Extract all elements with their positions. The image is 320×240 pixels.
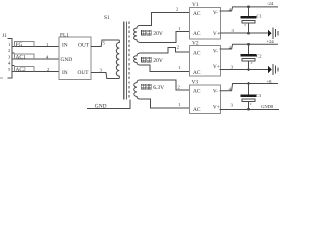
- svg-text:GND: GND: [61, 57, 73, 63]
- svg-text:2: 2: [178, 85, 181, 90]
- svg-text:3: 3: [231, 102, 234, 107]
- svg-text:5: 5: [103, 40, 106, 45]
- svg-text:1: 1: [178, 65, 181, 70]
- svg-text:IN: IN: [62, 42, 68, 48]
- svg-text:1: 1: [178, 26, 181, 31]
- svg-text:+24: +24: [267, 39, 275, 44]
- svg-text:3: 3: [100, 68, 103, 73]
- svg-text:V-: V-: [213, 89, 218, 95]
- svg-text:+: +: [250, 101, 253, 106]
- svg-text:20V: 20V: [153, 31, 163, 37]
- svg-text:GND: GND: [95, 103, 107, 109]
- svg-text:C3: C3: [256, 93, 262, 98]
- svg-text:3: 3: [231, 65, 234, 70]
- svg-text:C2: C2: [256, 54, 262, 59]
- svg-text:S1: S1: [104, 15, 110, 21]
- svg-text:GND8: GND8: [261, 104, 274, 109]
- svg-text:AC: AC: [193, 70, 201, 76]
- svg-text:FG: FG: [16, 42, 23, 48]
- svg-text:V+: V+: [213, 31, 220, 37]
- svg-text:-24: -24: [267, 1, 274, 6]
- svg-text:2: 2: [176, 6, 179, 11]
- svg-text:+: +: [250, 61, 253, 66]
- svg-text:3: 3: [232, 28, 235, 33]
- svg-text:AC1: AC1: [16, 55, 26, 61]
- svg-text:FL1: FL1: [60, 33, 69, 39]
- svg-text:2: 2: [8, 48, 11, 53]
- svg-text:4: 4: [8, 61, 11, 66]
- svg-text:1: 1: [8, 42, 11, 47]
- svg-text:V+: V+: [213, 64, 220, 70]
- svg-text:OUT: OUT: [78, 70, 90, 76]
- svg-text:V-: V-: [213, 10, 218, 16]
- svg-text:1: 1: [178, 102, 181, 107]
- svg-text:V+: V+: [213, 105, 220, 111]
- svg-text:6.3V: 6.3V: [153, 85, 164, 91]
- svg-text:AC: AC: [193, 107, 201, 113]
- svg-text:AC: AC: [193, 50, 201, 56]
- svg-text:2: 2: [177, 45, 180, 50]
- svg-text:20V: 20V: [153, 58, 163, 64]
- svg-text:AC: AC: [193, 88, 201, 94]
- svg-text:C1: C1: [257, 13, 263, 18]
- svg-text:AC2: AC2: [16, 67, 26, 73]
- svg-text:+: +: [244, 22, 247, 27]
- svg-text:AC: AC: [193, 11, 201, 17]
- svg-text:AC: AC: [193, 31, 201, 37]
- svg-text:OUT: OUT: [78, 42, 90, 48]
- svg-text:V-: V-: [213, 49, 218, 55]
- svg-text:3: 3: [8, 55, 11, 60]
- svg-text:J1: J1: [2, 33, 7, 39]
- svg-text:IN: IN: [62, 70, 68, 76]
- svg-text:5: 5: [8, 67, 11, 72]
- svg-text:+8: +8: [267, 79, 273, 84]
